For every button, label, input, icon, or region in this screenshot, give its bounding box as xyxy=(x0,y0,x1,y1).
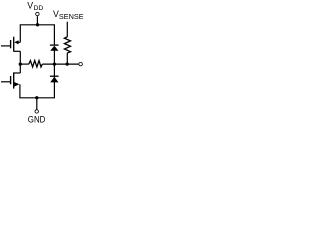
svg-text:SENSE: SENSE xyxy=(59,12,84,21)
svg-text:V: V xyxy=(27,1,33,11)
transistor Q1 (PMOS) xyxy=(1,37,20,52)
wire mid row right xyxy=(42,63,78,65)
Q2 source lead xyxy=(14,83,16,85)
terminal VDD xyxy=(35,12,39,16)
svg-text:GND: GND xyxy=(28,114,46,125)
Q1 gate bar xyxy=(10,40,12,48)
Q2 channel xyxy=(13,72,15,88)
terminal VSENSE output xyxy=(78,62,82,66)
Q2 gate lead xyxy=(1,81,11,83)
Q1 gate lead xyxy=(1,45,11,47)
node dot GND row xyxy=(35,96,38,99)
Q2 drain lead xyxy=(14,72,21,74)
D2 triangle xyxy=(50,77,58,83)
wire left rail mid xyxy=(19,51,21,73)
Q2 gate bar xyxy=(10,76,12,84)
wire top bus xyxy=(20,25,54,45)
node dot diode mid xyxy=(53,62,56,65)
node dot R1 mid xyxy=(66,62,69,65)
svg-text:DD: DD xyxy=(34,5,44,12)
D1 triangle xyxy=(50,46,58,51)
diode D1 xyxy=(50,45,59,51)
wire below R1 xyxy=(66,53,68,64)
transistor Q2 (NMOS) xyxy=(1,72,20,88)
wire VDD stem xyxy=(36,16,38,25)
terminal GND xyxy=(35,109,39,113)
node dot VDD bus xyxy=(36,23,39,26)
wire mid row left xyxy=(20,63,29,65)
wire left rail bottom xyxy=(20,50,55,97)
resistor R1 vertical xyxy=(64,37,70,53)
Q1 source arrow xyxy=(14,40,18,44)
Q2 source arrow xyxy=(14,82,19,87)
Q1 source lead xyxy=(18,41,21,43)
Q1 channel xyxy=(13,37,15,52)
wire GND stem xyxy=(36,98,38,110)
diode D2 xyxy=(50,76,59,82)
wire VSENSE stem xyxy=(66,22,68,37)
D2 cathode bar xyxy=(50,75,59,77)
resistor R2 horizontal xyxy=(29,61,43,67)
Q1 drain lead xyxy=(14,50,21,52)
D1 cathode bar xyxy=(50,44,59,46)
node dot left rail mid xyxy=(19,62,22,65)
